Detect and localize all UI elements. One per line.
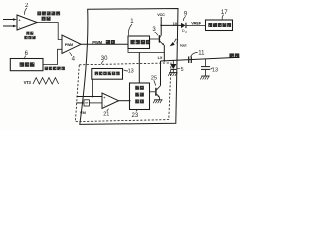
svg-text:VT3: VT3	[24, 80, 32, 85]
svg-text:Iout: Iout	[180, 44, 187, 48]
svg-text:11: 11	[198, 51, 205, 57]
svg-text:2: 2	[25, 3, 29, 9]
min duty circuit block	[92, 69, 123, 80]
ground for C13	[200, 76, 209, 79]
wire Q2 emitter	[159, 97, 161, 100]
svg-text:VM: VM	[80, 110, 87, 115]
svg-text:10: 10	[173, 21, 178, 26]
wire Q2 collector	[160, 61, 162, 86]
svg-text:VCC: VCC	[157, 13, 165, 17]
svg-text:PWM: PWM	[92, 40, 102, 45]
svg-text:VREF: VREF	[191, 21, 202, 26]
wire error-amp input 2	[3, 25, 17, 28]
label error-amp output (CJK)	[37, 11, 60, 20]
pin 9 callout	[183, 12, 188, 21]
svg-text:3: 3	[152, 27, 156, 33]
oscillator block	[10, 59, 43, 71]
wire drive to control	[138, 53, 140, 84]
op-amp error amplifier	[17, 15, 37, 30]
pin 21 callout	[103, 109, 109, 118]
wire op-amp output	[119, 100, 131, 102]
svg-text:LX: LX	[158, 56, 163, 60]
ground for Q2	[153, 100, 162, 103]
pin 17 callout	[221, 10, 228, 19]
svg-text:5: 5	[181, 67, 184, 73]
control block	[130, 83, 150, 110]
svg-text:21: 21	[103, 111, 109, 117]
IC main box	[80, 9, 178, 125]
pin 13 callout inner	[123, 68, 133, 74]
wire error-amp output	[37, 23, 62, 40]
wire op-amp + input	[77, 79, 102, 97]
svg-text:17: 17	[221, 10, 228, 16]
svg-text:PWM: PWM	[65, 43, 73, 47]
pin 25 callout	[151, 76, 157, 86]
pin 30 callout	[101, 56, 108, 64]
svg-text:1: 1	[130, 19, 134, 25]
pin 13 callout right	[210, 68, 218, 74]
pin 1 callout	[128, 19, 134, 35]
wire error-amp input 1	[3, 18, 17, 21]
op-amp PWM comparator	[62, 35, 81, 54]
drive circuit block	[128, 36, 150, 49]
capacitor C13	[201, 59, 210, 76]
node VREF junction	[160, 25, 162, 27]
linear regulator block	[206, 20, 233, 31]
pin 11 callout	[191, 51, 205, 57]
svg-text:23: 23	[132, 113, 139, 119]
svg-text:4: 4	[72, 57, 76, 63]
label 5 callout	[177, 67, 184, 73]
wire VCC	[160, 17, 162, 35]
series element 11	[188, 56, 192, 63]
pin 6 callout	[25, 51, 29, 59]
label sawtooth voltage (CJK)	[45, 67, 65, 71]
wire PWM signal	[81, 43, 128, 45]
pin 2 callout	[25, 3, 29, 15]
wire oscillator to comparator	[43, 49, 62, 64]
sawtooth waveform	[33, 78, 59, 84]
node rail junction	[163, 60, 165, 62]
wire Q1 emitter	[163, 45, 165, 61]
svg-text:2: 2	[185, 30, 187, 34]
pin 3 callout	[152, 27, 158, 35]
wire VREF	[161, 24, 181, 26]
op-amp modulator	[102, 93, 119, 109]
wire drive return	[128, 49, 164, 53]
dashed sub-circuit box 30	[75, 63, 171, 122]
svg-text:+: +	[103, 96, 105, 100]
transistor Q2	[150, 86, 161, 98]
pin 4 callout	[70, 52, 76, 62]
label output (CJK)	[229, 53, 239, 58]
label PWM signal	[92, 40, 115, 45]
wire op-amp - input	[76, 102, 84, 104]
pin 23 callout	[132, 110, 139, 120]
wire output rail	[161, 57, 240, 61]
pin 7 callout	[170, 39, 179, 47]
svg-text:30: 30	[101, 56, 108, 62]
transistor Q1	[150, 35, 165, 45]
label error-amplifier (CJK)	[24, 32, 35, 40]
svg-text:13: 13	[212, 68, 218, 74]
svg-text:7: 7	[176, 39, 179, 45]
svg-text:+: +	[19, 18, 21, 22]
ground for D1	[168, 73, 177, 76]
source VM	[84, 100, 102, 106]
diode D2	[181, 23, 206, 28]
svg-text:9: 9	[184, 12, 188, 18]
svg-text:13: 13	[128, 68, 134, 74]
diode D1	[170, 60, 176, 72]
